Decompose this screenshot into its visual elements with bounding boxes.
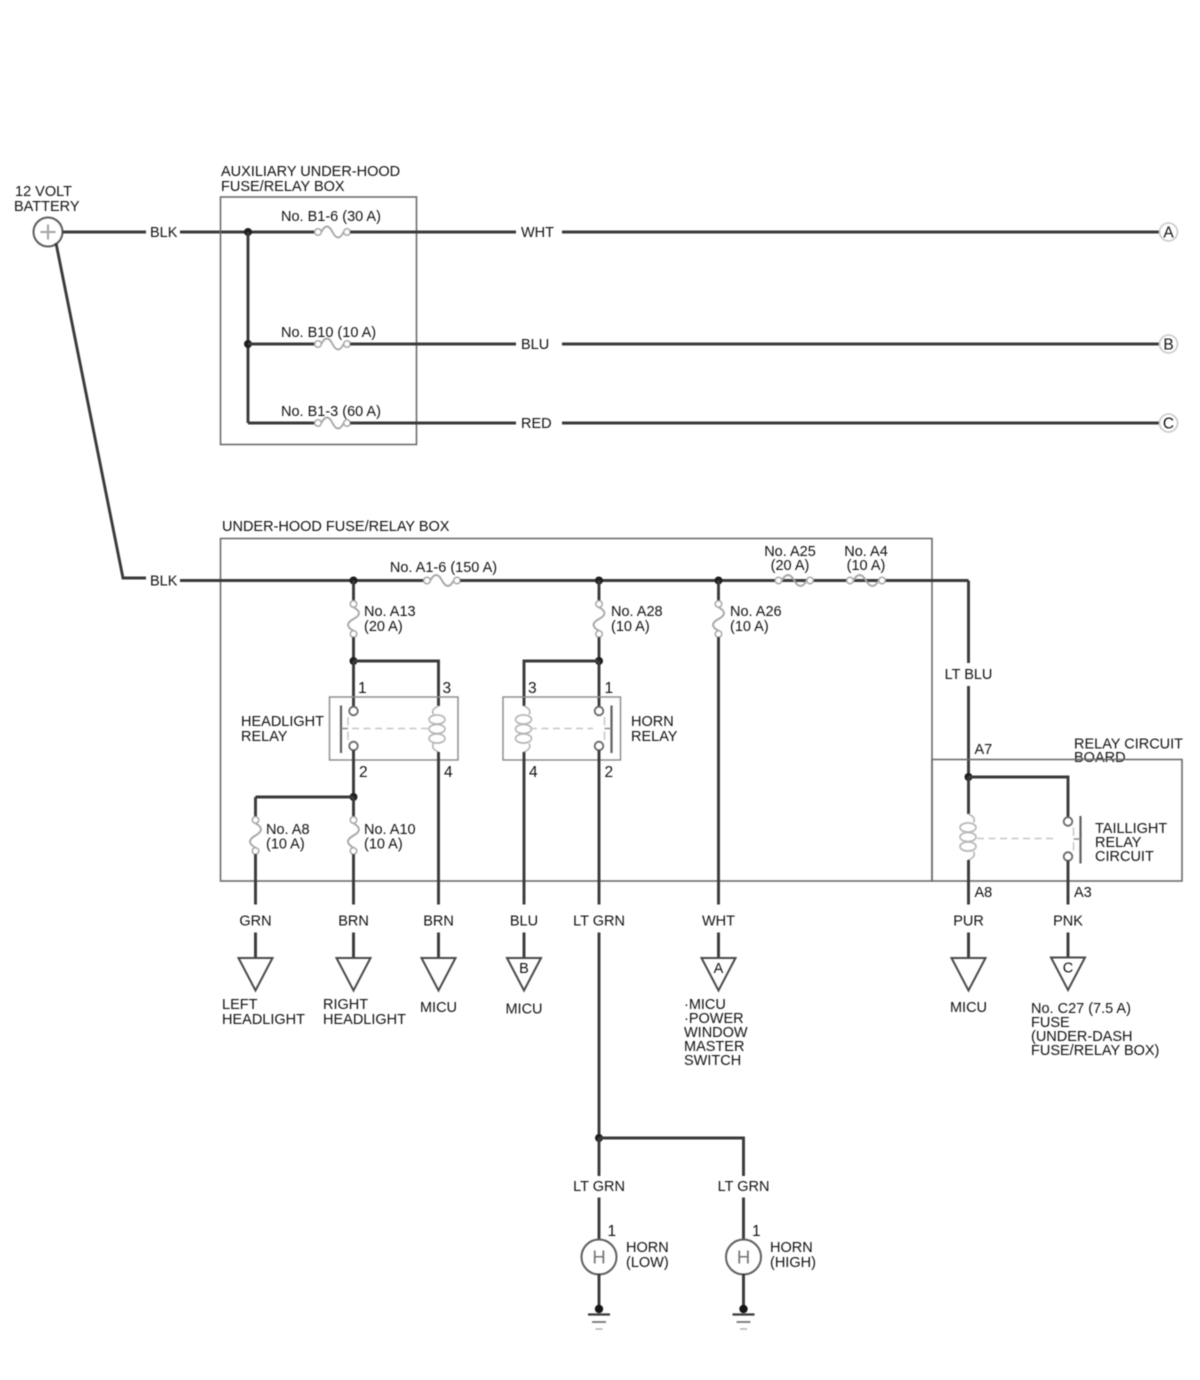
- svg-text:WHT: WHT: [702, 914, 735, 930]
- fuse A13: [348, 607, 359, 630]
- svg-text:RIGHT: RIGHT: [323, 997, 368, 1013]
- wire BLU to connector B: [562, 343, 1160, 346]
- wire fuse A8 to GRN gap: [254, 854, 257, 904]
- svg-text:BLU: BLU: [521, 337, 549, 353]
- svg-text:(20 A): (20 A): [771, 558, 810, 574]
- wire bus to fuse A26: [717, 581, 720, 601]
- wire GRN to left headlight triangle: [254, 933, 257, 959]
- svg-text:RELAY: RELAY: [241, 729, 288, 745]
- svg-text:No. A1-6 (150 A): No. A1-6 (150 A): [390, 560, 497, 576]
- connector triangle A MICU power window: [702, 958, 736, 991]
- svg-text:HEADLIGHT: HEADLIGHT: [222, 1012, 305, 1028]
- svg-text:B: B: [1163, 337, 1173, 354]
- node junction pin2 to fuses A8 A10: [350, 793, 358, 801]
- wire horn high to ground: [742, 1274, 745, 1306]
- svg-text:LT BLU: LT BLU: [945, 667, 993, 683]
- wire BLU to connector B triangle: [523, 933, 526, 959]
- svg-text:UNDER-HOOD FUSE/RELAY BOX: UNDER-HOOD FUSE/RELAY BOX: [222, 519, 450, 535]
- svg-text:1: 1: [605, 680, 614, 697]
- node junction taillight relay feed: [965, 773, 973, 781]
- relay K2 horn relay box: [503, 697, 621, 760]
- svg-text:H: H: [592, 1247, 605, 1268]
- headlight relay coil: [433, 706, 439, 715]
- svg-text:LT GRN: LT GRN: [573, 914, 625, 930]
- svg-text:C: C: [1063, 961, 1073, 977]
- connector triangle right headlight: [337, 958, 371, 991]
- wire WHT to connector A triangle: [717, 933, 720, 959]
- wire horn junction left branch stub: [598, 1138, 601, 1176]
- svg-text:RED: RED: [521, 416, 552, 432]
- wire to fuse B10: [248, 343, 315, 346]
- wire LT BLU down to relay board: [967, 686, 970, 777]
- connector B: [1160, 335, 1178, 353]
- svg-text:(HIGH): (HIGH): [770, 1255, 816, 1271]
- svg-text:CIRCUIT: CIRCUIT: [1095, 849, 1154, 865]
- svg-text:1: 1: [608, 1223, 617, 1240]
- wire BRN to MICU triangle: [437, 933, 440, 959]
- wire fuse B1-3 to RED label: [350, 422, 516, 425]
- fuse A8: [250, 823, 261, 847]
- svg-text:WHT: WHT: [521, 225, 554, 241]
- svg-text:1: 1: [752, 1223, 761, 1240]
- svg-text:BLU: BLU: [510, 914, 538, 930]
- wire bus to fuse A28: [598, 581, 601, 601]
- wire junction to taillight coil: [967, 777, 970, 814]
- wire LT BLU down upper: [967, 581, 970, 664]
- svg-text:3: 3: [443, 680, 452, 697]
- horn high device circle: [726, 1240, 761, 1275]
- svg-text:(10 A): (10 A): [266, 837, 305, 853]
- node junction horn relay feed: [595, 657, 603, 665]
- wire fuse A10 to BRN gap: [352, 854, 355, 904]
- wire down to fuse A8: [254, 797, 257, 817]
- svg-text:MICU: MICU: [950, 1000, 987, 1016]
- svg-text:(10 A): (10 A): [611, 619, 650, 635]
- fuse B10: [321, 339, 343, 350]
- node junction headlight relay feed: [350, 657, 358, 665]
- wire fuse B1-6 to WHT label: [350, 231, 516, 234]
- wire taillight coil down PUR: [967, 860, 970, 905]
- svg-text:GRN: GRN: [239, 914, 271, 930]
- connector triangle B MICU: [507, 958, 541, 991]
- taillight relay dashed actuator link: [977, 838, 1055, 840]
- wire PNK to connector C triangle: [1067, 933, 1070, 958]
- svg-text:2: 2: [605, 764, 614, 781]
- svg-text:BLK: BLK: [150, 574, 178, 590]
- wire LT GRN down to horn junction: [598, 933, 601, 1139]
- wire junction to headlight relay pin 1: [352, 661, 355, 707]
- svg-text:MICU: MICU: [505, 1002, 542, 1018]
- wire junction to horn relay pin 3: [524, 661, 599, 706]
- wire RED to connector C: [562, 422, 1160, 425]
- wire fuse A13 to junction: [352, 637, 355, 661]
- wire LT GRN to horn low: [598, 1198, 601, 1241]
- node junction bus at A28 branch: [595, 577, 603, 585]
- svg-text:BRN: BRN: [423, 914, 454, 930]
- svg-text:HORN: HORN: [626, 1240, 669, 1256]
- wire headlight relay pin 4 down: [437, 752, 440, 905]
- svg-text:No. B1-3 (60 A): No. B1-3 (60 A): [281, 404, 381, 420]
- fuse B1-3: [321, 418, 343, 429]
- svg-text:No. A13: No. A13: [364, 604, 416, 620]
- wire horn relay pin 4 down: [523, 752, 526, 905]
- svg-text:(10 A): (10 A): [847, 558, 886, 574]
- fuse A25: [782, 575, 807, 586]
- wire battery to BLK label: [63, 231, 147, 234]
- svg-text:3: 3: [528, 680, 537, 697]
- wire BRN to right headlight triangle: [352, 933, 355, 959]
- wire down to fuse A10: [352, 797, 355, 817]
- svg-text:A: A: [1163, 225, 1174, 242]
- svg-text:(10 A): (10 A): [730, 619, 769, 635]
- svg-text:A8: A8: [975, 885, 993, 901]
- svg-text:LT GRN: LT GRN: [573, 1179, 625, 1195]
- relay K1 headlight relay box: [330, 697, 459, 760]
- svg-text:B: B: [519, 961, 529, 977]
- horn relay switch contact: [610, 706, 612, 754]
- wire WHT to connector A: [562, 231, 1160, 234]
- battery B1 12V positive terminal: [34, 218, 63, 247]
- svg-text:FUSE/RELAY BOX: FUSE/RELAY BOX: [221, 179, 345, 195]
- svg-text:No. A28: No. A28: [611, 604, 663, 620]
- svg-text:LEFT: LEFT: [222, 997, 258, 1013]
- ground G2 horn high: [739, 1305, 747, 1313]
- svg-text:HORN: HORN: [631, 714, 674, 730]
- fuse A10: [348, 823, 359, 847]
- wire junction to headlight relay pin 3: [354, 661, 439, 706]
- svg-text:AUXILIARY UNDER-HOOD: AUXILIARY UNDER-HOOD: [221, 164, 400, 180]
- svg-text:No. B1-6 (30 A): No. B1-6 (30 A): [281, 209, 381, 225]
- horn low device circle: [582, 1240, 617, 1275]
- svg-text:A7: A7: [975, 742, 993, 758]
- wire junction to taillight switch: [969, 777, 1069, 817]
- svg-text:12 VOLT: 12 VOLT: [15, 184, 72, 200]
- wire horn junction to right branch: [599, 1138, 744, 1176]
- fuse A4: [853, 575, 878, 586]
- svg-text:HEADLIGHT: HEADLIGHT: [323, 1012, 406, 1028]
- fuse A1-6: [430, 575, 453, 586]
- svg-text:(LOW): (LOW): [626, 1255, 669, 1271]
- connector triangle left headlight: [239, 958, 273, 991]
- svg-text:BLK: BLK: [150, 225, 178, 241]
- wire taillight switch down PNK: [1067, 861, 1070, 905]
- fuse B1-6: [321, 227, 343, 238]
- node junction aux bus top: [244, 228, 252, 236]
- connector C: [1160, 414, 1178, 432]
- svg-text:RELAY: RELAY: [631, 729, 678, 745]
- wire fuse B10 to BLU label: [350, 343, 516, 346]
- wire to fuse B1-3: [248, 422, 315, 425]
- svg-text:BATTERY: BATTERY: [14, 199, 80, 215]
- wire LT GRN to horn high: [742, 1198, 745, 1241]
- taillight relay coil: [969, 814, 975, 823]
- horn relay coil: [524, 706, 530, 715]
- node junction bus at A26 branch: [715, 577, 723, 585]
- connector triangle MICU PUR: [952, 958, 986, 991]
- connector triangle MICU BRN: [422, 958, 456, 991]
- relay circuit board box outline: [932, 760, 1182, 882]
- wire junction to horn relay pin 1: [598, 661, 601, 707]
- svg-text:C: C: [1163, 416, 1174, 433]
- wire battery diagonal to under-hood box: [56, 243, 146, 578]
- svg-text:H: H: [737, 1247, 750, 1268]
- wire horn relay pin 2 down LT GRN: [598, 750, 601, 904]
- node junction horn branch: [595, 1134, 603, 1142]
- svg-text:PUR: PUR: [953, 914, 984, 930]
- headlight relay switch contact: [340, 706, 342, 754]
- taillight relay switch contact: [1079, 816, 1081, 864]
- svg-text:HEADLIGHT: HEADLIGHT: [241, 714, 324, 730]
- horn relay dashed actuator link: [530, 728, 593, 730]
- ground G1 horn low: [595, 1305, 603, 1313]
- svg-text:A: A: [714, 961, 724, 977]
- wire PUR to MICU triangle: [967, 933, 970, 959]
- svg-text:2: 2: [359, 764, 368, 781]
- svg-text:MICU: MICU: [420, 1000, 457, 1016]
- wire BLK into aux fuse box: [180, 231, 315, 234]
- svg-text:A3: A3: [1074, 885, 1092, 901]
- svg-text:1: 1: [358, 680, 367, 697]
- connector A: [1160, 223, 1178, 241]
- wire horn low to ground: [598, 1274, 601, 1306]
- auxiliary under-hood fuse/relay box outline: [221, 197, 417, 445]
- node junction bus at A13 branch: [350, 577, 358, 585]
- wire fuse A28 to junction: [598, 637, 601, 661]
- under-hood fuse/relay box outline: [221, 539, 933, 882]
- svg-text:BOARD: BOARD: [1074, 750, 1126, 766]
- svg-text:4: 4: [444, 764, 453, 781]
- wire aux internal bus vertical: [247, 232, 250, 423]
- svg-text:(20 A): (20 A): [364, 619, 403, 635]
- wire junction left to fuse A8: [256, 796, 354, 799]
- svg-text:BRN: BRN: [338, 914, 369, 930]
- svg-text:LT GRN: LT GRN: [718, 1179, 770, 1195]
- wire BLK bus into box: [180, 579, 424, 582]
- wire bus fuse A1-6 to LT BLU corner: [460, 579, 968, 582]
- fuse A28: [594, 607, 605, 630]
- svg-text:No. A26: No. A26: [730, 604, 782, 620]
- svg-text:(10 A): (10 A): [364, 837, 403, 853]
- svg-text:HORN: HORN: [770, 1240, 813, 1256]
- wire headlight relay pin 2 down: [352, 750, 355, 797]
- fuse A26: [713, 607, 724, 630]
- svg-text:FUSE/RELAY BOX): FUSE/RELAY BOX): [1031, 1043, 1159, 1059]
- svg-text:PNK: PNK: [1053, 914, 1083, 930]
- svg-text:SWITCH: SWITCH: [684, 1053, 741, 1069]
- svg-text:4: 4: [529, 764, 538, 781]
- headlight relay dashed actuator link: [352, 728, 428, 730]
- wire bus to fuse A13: [352, 581, 355, 601]
- node junction aux bus middle: [244, 340, 252, 348]
- wire fuse A26 down WHT: [717, 637, 720, 904]
- connector triangle C fuse C27: [1051, 958, 1085, 991]
